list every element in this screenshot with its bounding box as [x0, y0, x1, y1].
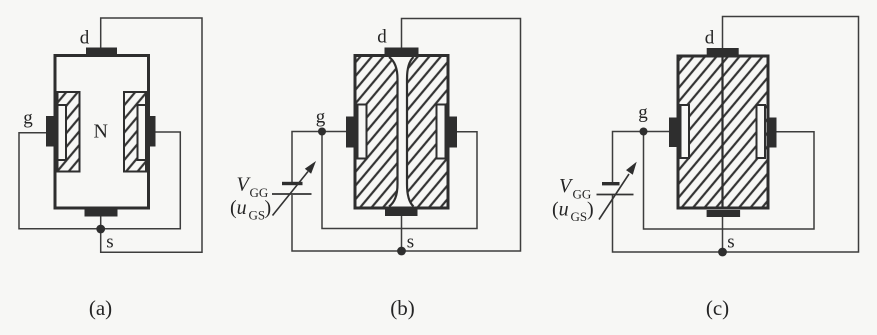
source contact bar (c) [707, 210, 741, 217]
right P+ gate region (c) [757, 105, 766, 158]
depletion region (hatched) around left gate [58, 92, 80, 172]
voltage source VGG (variable battery) (c): short thick plate [602, 182, 620, 185]
svg-text:s: s [407, 232, 414, 253]
left gate contact bar (c) [669, 118, 677, 148]
node s junction dot (b) [397, 247, 406, 256]
right gate contact bar [148, 116, 156, 147]
left P+ gate region [58, 105, 67, 160]
wire: gate tie loop (b) [322, 132, 477, 229]
wire: VGG bottom to s node (b) [292, 195, 402, 251]
svg-text:GS: GS [249, 208, 266, 223]
wire: gate to VGG top (c) [613, 132, 644, 183]
svg-text:(a): (a) [89, 296, 112, 320]
svg-text:s: s [106, 232, 113, 253]
svg-text:d: d [80, 28, 90, 49]
left gate contact bar [46, 116, 54, 147]
svg-text:(b): (b) [390, 296, 415, 320]
svg-text:s: s [727, 232, 734, 253]
wire: drain loop (d to s node, right outer loop) [101, 18, 202, 252]
N-type body of JFET (b), mostly depleted (hatched) [355, 56, 448, 209]
channel boundary right [407, 57, 414, 207]
source contact bar [85, 210, 118, 217]
left P+ gate region (c) [681, 105, 690, 158]
left P+ gate region (b) [358, 105, 367, 159]
wire: gate to VGG top (b) [292, 132, 322, 183]
node g junction dot (c) [640, 128, 648, 136]
svg-text:(u: (u [230, 197, 247, 219]
VGG variability arrow (b) [273, 172, 309, 216]
node s junction dot (a) [96, 225, 105, 234]
drain contact bar [86, 48, 117, 55]
channel boundary left [389, 57, 398, 207]
node s junction dot (c) [718, 248, 727, 257]
wire: drain loop (c) [723, 17, 859, 253]
source contact bar (b) [385, 210, 418, 217]
VGG long thin plate (b) [272, 193, 312, 195]
conductive channel (white, pinched) [389, 57, 414, 207]
VGG variability arrow (c) [599, 174, 629, 220]
right gate contact bar (c) [770, 118, 777, 148]
depletion boundary center line (c) [721, 57, 723, 207]
svg-text:(c): (c) [706, 296, 729, 320]
svg-text:N: N [93, 121, 107, 143]
wire: drain loop (b) [402, 19, 521, 252]
VGG long thin plate (c) [597, 194, 634, 196]
node g junction dot (b) [318, 128, 326, 136]
wire: VGG bottom to s node (c) [613, 195, 723, 252]
N-type body of JFET (a) [55, 56, 149, 209]
svg-text:(u: (u [552, 199, 569, 221]
svg-text:g: g [638, 102, 648, 123]
wire: gate loop (left gate around bottom to right gate) [19, 132, 180, 229]
N-type body of JFET (c), fully depleted (hatched) [678, 56, 768, 208]
drain contact bar (b) [385, 48, 419, 55]
drain contact bar (c) [707, 48, 739, 55]
svg-text:g: g [316, 107, 326, 128]
svg-text:): ) [587, 199, 594, 221]
svg-text:g: g [23, 108, 33, 129]
right gate contact bar (b) [450, 117, 458, 148]
depletion region (hatched) around right gate [124, 92, 146, 172]
wire: gate tie loop (c) [644, 132, 815, 230]
svg-text:d: d [377, 27, 387, 48]
left gate contact bar (b) [346, 117, 354, 148]
right P+ gate region (b) [437, 105, 446, 159]
right P+ gate region [138, 105, 147, 160]
voltage source VGG (variable battery) (b): short thick plate [282, 182, 303, 185]
svg-text:GS: GS [571, 209, 588, 224]
svg-text:): ) [265, 197, 272, 219]
svg-text:d: d [705, 28, 715, 49]
